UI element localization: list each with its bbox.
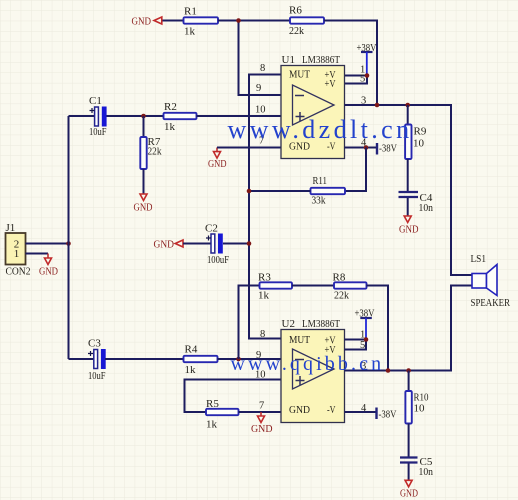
- power -38V (U2 pin 4): [345, 408, 397, 421]
- ground U1 pin 7: [208, 148, 227, 170]
- ground J1 pin 1: [26, 254, 59, 278]
- wire U2 output to speaker bottom: [345, 286, 473, 371]
- ground below C4: [399, 198, 419, 236]
- ground below R7: [134, 169, 153, 213]
- svg-text:J1: J1: [6, 222, 16, 234]
- svg-text:C1: C1: [89, 95, 102, 107]
- capacitor C3 10uF: [88, 337, 106, 382]
- node junction U2 pin1 +38V: [364, 337, 369, 342]
- wire input rail to C1: [69, 115, 96, 117]
- svg-text:www.qqibb.cn: www.qqibb.cn: [231, 353, 385, 375]
- svg-text:1k: 1k: [258, 290, 270, 302]
- capacitor C2 100uF: [183, 222, 229, 265]
- svg-text:R2: R2: [164, 101, 177, 113]
- svg-text:MUT: MUT: [289, 334, 310, 346]
- svg-text:R6: R6: [289, 5, 302, 17]
- resistor R9 10: [405, 105, 427, 159]
- node junction feedback/output: [375, 103, 380, 108]
- svg-text:GND: GND: [400, 487, 418, 499]
- svg-text:1k: 1k: [206, 419, 218, 431]
- resistor R8 22k: [333, 271, 367, 301]
- resistor R1 1k: [184, 6, 219, 38]
- power +38V (U1): [357, 43, 377, 76]
- wire U2 pin 10 to R5: [185, 380, 282, 413]
- op-amp U1 LM3886T: [281, 54, 345, 159]
- svg-text:R8: R8: [333, 271, 346, 283]
- svg-text:R4: R4: [185, 343, 198, 355]
- wire U2 pin 5 link: [345, 340, 367, 350]
- wire U2 pin 1: [345, 339, 367, 341]
- svg-text:MUT: MUT: [289, 69, 310, 81]
- svg-text:1k: 1k: [184, 26, 196, 38]
- node junction R1/R6: [236, 18, 241, 23]
- watermark www.qqibb.cn: [231, 353, 385, 375]
- svg-text:22k: 22k: [334, 290, 349, 302]
- svg-text:1k: 1k: [185, 364, 197, 376]
- svg-text:9: 9: [256, 83, 261, 94]
- node junction C1/R7: [141, 114, 146, 119]
- svg-text:LM3886T: LM3886T: [302, 318, 340, 330]
- svg-text:10: 10: [413, 137, 425, 149]
- op-amp U2 LM3886T: [281, 318, 345, 423]
- svg-text:1k: 1k: [164, 121, 176, 133]
- svg-text:GND: GND: [154, 239, 175, 251]
- svg-text:R3: R3: [258, 271, 271, 283]
- power -38V (U1 pin 4): [345, 143, 398, 155]
- node junction R10/output: [406, 368, 411, 373]
- speaker LS1: [471, 253, 511, 309]
- U2 pin numbers: [255, 329, 367, 414]
- svg-text:GND: GND: [289, 404, 310, 416]
- svg-text:8: 8: [260, 329, 265, 340]
- svg-text:GND: GND: [132, 16, 152, 28]
- svg-text:SPEAKER: SPEAKER: [471, 298, 511, 309]
- svg-text:GND: GND: [39, 265, 58, 277]
- U1 pin numbers: [255, 63, 367, 149]
- svg-text:CON2: CON2: [6, 265, 31, 277]
- wire R3 to R8: [292, 285, 334, 287]
- svg-text:5: 5: [360, 74, 365, 85]
- wire pin9 node up to R3: [239, 286, 260, 360]
- svg-text:7: 7: [259, 400, 264, 411]
- ground U2 pin 7: [251, 412, 273, 435]
- resistor R4 1k: [184, 343, 218, 376]
- ground below C5: [400, 464, 418, 500]
- svg-text:10: 10: [414, 402, 426, 414]
- node junction R8 feedback/output: [386, 368, 391, 373]
- svg-text:10uF: 10uF: [88, 370, 106, 382]
- svg-text:U2: U2: [282, 318, 295, 330]
- power +38V (U2): [355, 308, 375, 339]
- svg-text:100uF: 100uF: [207, 254, 229, 266]
- wire GND to R1: [163, 20, 184, 22]
- svg-text:-38V: -38V: [379, 409, 397, 420]
- svg-text:GND: GND: [251, 423, 273, 435]
- wire U1 output to speaker top: [345, 105, 473, 275]
- svg-text:GND: GND: [399, 224, 419, 236]
- node junction R9/output: [405, 103, 410, 108]
- wire R4 to U2 pin 9: [218, 358, 282, 360]
- resistor R7 22k: [140, 116, 162, 169]
- capacitor C5 10n: [400, 424, 433, 478]
- wire C1 to R2: [107, 115, 164, 117]
- svg-text:10n: 10n: [419, 466, 434, 478]
- resistor R3 1k: [258, 271, 292, 301]
- wire R11 to mute rail: [249, 190, 311, 192]
- node junction pin1 +38V: [365, 73, 370, 78]
- svg-text:www.dzdlt.cn: www.dzdlt.cn: [228, 115, 413, 144]
- node junction mute rail/C2: [247, 241, 252, 246]
- svg-text:1: 1: [14, 248, 19, 260]
- wire R2 to U1 pin 10: [197, 115, 282, 117]
- wire C3 to R4: [105, 358, 184, 360]
- resistor R11 33k: [311, 175, 346, 207]
- wire U1 pin 5 link: [345, 76, 368, 84]
- svg-text:10uF: 10uF: [89, 126, 107, 138]
- svg-text:R11: R11: [313, 175, 328, 187]
- connector J1 CON2: [6, 222, 31, 277]
- wire R6 to U1 output node: [324, 21, 377, 106]
- node junction pin4/R11: [364, 145, 369, 150]
- ground GND (left of C2): [154, 239, 184, 251]
- svg-text:33k: 33k: [312, 195, 326, 207]
- svg-text:-38V: -38V: [379, 143, 397, 154]
- svg-text:GND: GND: [208, 158, 227, 170]
- resistor R5 1k: [206, 398, 239, 431]
- wire pin4 node down to R11: [345, 148, 366, 192]
- svg-text:C2: C2: [205, 222, 218, 234]
- wire U1 pin 1: [345, 75, 368, 77]
- svg-text:LM3886T: LM3886T: [302, 54, 340, 66]
- resistor R6 22k: [289, 5, 324, 37]
- capacitor C1 10uF: [89, 95, 107, 138]
- wire R1 to R6: [218, 20, 290, 22]
- resistor R10 10: [405, 371, 429, 424]
- ground GND (left of R1): [132, 16, 162, 28]
- svg-text:+V: +V: [325, 78, 336, 90]
- svg-text:LS1: LS1: [471, 253, 487, 265]
- svg-text:8: 8: [260, 63, 265, 74]
- wire input rail C1 to C3: [68, 116, 70, 359]
- wire R8 to U2 output node: [367, 286, 389, 371]
- wire J1 pin 2 to input rail: [26, 243, 69, 245]
- svg-text:10n: 10n: [419, 202, 434, 214]
- svg-text:22k: 22k: [289, 25, 304, 37]
- svg-text:GND: GND: [134, 201, 153, 213]
- node junction mute rail/R11: [247, 189, 252, 194]
- svg-text:-V: -V: [327, 404, 336, 416]
- svg-text:U1: U1: [282, 54, 295, 66]
- svg-text:10: 10: [255, 105, 266, 116]
- wire C2 to mute rail: [223, 243, 249, 245]
- svg-text:22k: 22k: [148, 146, 162, 158]
- wire top junction down to U1 pin 9: [239, 21, 282, 96]
- svg-text:C3: C3: [88, 337, 101, 349]
- wire U1 pin 7: [217, 147, 281, 149]
- svg-text:R1: R1: [184, 6, 197, 18]
- node junction input rail/J1: [66, 241, 71, 246]
- wire input rail to C3: [69, 358, 95, 360]
- wire mute rail U1 pin8 down to U2 pin8: [249, 75, 281, 339]
- resistor R2 1k: [164, 101, 197, 133]
- watermark www.dzdlt.cn: [228, 115, 413, 144]
- wire R5 to U2 pin 7: [239, 411, 282, 413]
- capacitor C4 10n: [399, 159, 434, 214]
- svg-text:R5: R5: [206, 398, 219, 410]
- node junction R3/R4/pin9: [236, 357, 241, 362]
- svg-text:R9: R9: [414, 125, 427, 137]
